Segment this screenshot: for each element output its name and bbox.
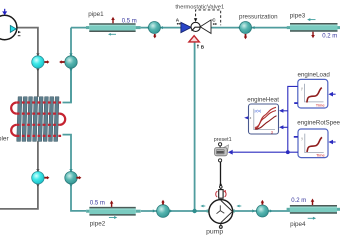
- signal branch to engineHeat input 2: [283, 126, 288, 128]
- svg-text:0.2 m: 0.2 m: [291, 198, 306, 204]
- wire pipe1 to valve A: [141, 27, 181, 29]
- svg-text:engineRotSpeed: engineRotSpeed: [297, 119, 340, 126]
- wire node2 to left edge: [0, 184, 38, 209]
- svg-text:engineLoad: engineLoad: [298, 71, 331, 78]
- valve body circle with lever: [191, 22, 200, 31]
- engineRotSpeed block: [294, 129, 336, 158]
- pipe1: [86, 17, 141, 36]
- pressurization node: [238, 22, 255, 40]
- svg-text:z: z: [250, 116, 252, 120]
- svg-text:3: 3: [271, 129, 273, 134]
- svg-text:cooler: cooler: [0, 136, 10, 143]
- node3 (teal sensor, coolant top): [59, 53, 77, 71]
- pump shaft collar with rotation arrows: [216, 190, 226, 199]
- cooler coil (red serpentine): [11, 103, 65, 136]
- engineLoad block: [294, 79, 335, 108]
- valve control dashed line: [196, 10, 221, 25]
- node7 (coolant sensor before valve): [146, 22, 162, 39]
- shaft preset1 to pump: [220, 162, 222, 184]
- svg-text:pipe2: pipe2: [90, 221, 106, 228]
- node2 (cyan sensor, air out): [32, 169, 50, 187]
- svg-text:thermostaticValve1: thermostaticValve1: [175, 4, 224, 10]
- valve outlet cone C (white): [200, 20, 211, 34]
- node1 (cyan sensor, air in): [32, 53, 50, 71]
- wire node5 to pump: [169, 210, 209, 212]
- node6 (coolant sensor after pump): [252, 200, 272, 217]
- svg-text:engineHeat: engineHeat: [247, 96, 279, 103]
- valve inlet cone A (blue): [181, 22, 191, 32]
- wire cooler coil bottom to node4: [63, 135, 72, 172]
- wire node6 to pipe4: [268, 210, 290, 212]
- wire pump to node6: [233, 210, 257, 212]
- fan ambient blue arrow: [2, 9, 7, 15]
- wire pressurization to pipe3: [251, 27, 290, 29]
- signal wire junction to preset1: [232, 151, 287, 153]
- pipe3: [287, 18, 340, 38]
- preset1 speed source icon: [215, 143, 229, 162]
- svg-text:Time: Time: [316, 153, 326, 158]
- valve cone B (red): [189, 36, 199, 42]
- wire valve B down to pump line: [194, 42, 196, 211]
- signal junction dot: [286, 150, 290, 154]
- svg-text:preset1: preset1: [214, 137, 232, 143]
- wire valve C to pressurization: [211, 27, 240, 29]
- svg-text:pipe4: pipe4: [290, 221, 306, 228]
- svg-text:pump: pump: [206, 228, 223, 235]
- wire node4 down to pipe2: [71, 184, 86, 211]
- fan (circle, partially off-screen left): [0, 15, 21, 39]
- pipe4: [287, 199, 340, 220]
- junction valve-B line with pump line: [192, 209, 196, 213]
- wire cooler bottom to node2: [37, 141, 39, 171]
- svg-text:pipe1: pipe1: [88, 11, 104, 18]
- pump: [200, 200, 241, 229]
- wire air loop fan to node1: [17, 28, 38, 56]
- wire cooler coil top to node3: [63, 56, 72, 103]
- wire node1 to cooler top: [37, 68, 39, 97]
- svg-text:pressurization: pressurization: [239, 13, 278, 20]
- pipe2: [86, 200, 141, 219]
- node4 (teal sensor, coolant bottom): [65, 169, 82, 187]
- svg-text:y: y: [301, 136, 303, 140]
- cooler radiator slats: [17, 97, 59, 142]
- svg-text:0.5 m: 0.5 m: [122, 18, 137, 24]
- svg-text:0.2 m: 0.2 m: [322, 33, 337, 39]
- svg-text:pipe3: pipe3: [290, 12, 306, 19]
- thermostaticValve1: [176, 10, 221, 50]
- signal wire junction to engineRotSpeed: [288, 151, 298, 153]
- node5 (coolant sensor before pump): [153, 200, 172, 218]
- svg-text:Time: Time: [316, 102, 326, 107]
- svg-text:y: y: [301, 87, 303, 91]
- signal branch to engineHeat input 1: [283, 110, 288, 112]
- svg-text:0.5 m: 0.5 m: [90, 201, 105, 207]
- wire pipe2 to node5: [141, 210, 157, 212]
- signal wire engineLoad down to junction: [288, 86, 298, 152]
- svg-text:p(w): p(w): [255, 109, 262, 113]
- wire node3 to pipe1: [70, 28, 72, 69]
- engineHeat block (combi table): [244, 104, 278, 134]
